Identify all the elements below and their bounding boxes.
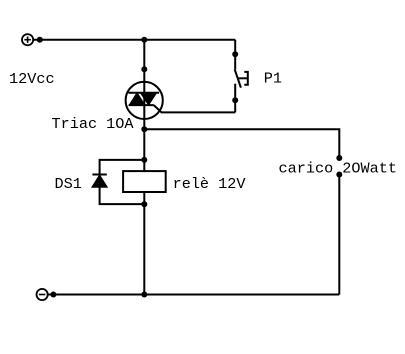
triac U1 bottom bar xyxy=(129,104,154,106)
wire gate run to triac xyxy=(154,105,235,112)
junction dot triac anode xyxy=(141,66,147,72)
wire top rail from + to P1 corner xyxy=(33,39,235,41)
wire P1 top drop xyxy=(234,40,236,70)
wire load bottom drop xyxy=(338,175,340,295)
plus supply terminal xyxy=(22,34,33,45)
junction dot P1 bottom xyxy=(232,97,238,103)
pushbutton P1 actuator stem xyxy=(238,77,248,79)
svg-text:Triac 1OA: Triac 1OA xyxy=(52,115,135,133)
svg-text:12Vcc: 12Vcc xyxy=(9,70,55,88)
minus supply terminal xyxy=(37,289,48,300)
junction dot top rail / triac xyxy=(141,37,147,43)
triac U1 left triangle xyxy=(129,93,145,105)
svg-text:P1: P1 xyxy=(264,70,282,88)
pushbutton P1 lever xyxy=(235,69,241,87)
triac U1 top bar xyxy=(128,92,159,94)
junction dot carico bottom xyxy=(336,172,342,178)
junction dot bottom rail / relay xyxy=(141,292,147,298)
pushbutton P1 actuator bracket xyxy=(244,72,248,85)
wire diode branch top xyxy=(100,160,145,175)
junction dot relay top xyxy=(141,157,147,163)
svg-text:carico 2OWatt: carico 2OWatt xyxy=(279,160,397,178)
junction dot at - terminal xyxy=(50,292,56,298)
wire P1 bottom to gate run xyxy=(234,84,236,113)
triac U1 right triangle xyxy=(140,93,156,105)
diode DS1 triangle xyxy=(92,175,107,187)
junction dot triac cathode xyxy=(141,126,147,132)
wire main vertical rail x=144 xyxy=(143,40,145,295)
junction dot at + terminal xyxy=(37,37,43,43)
svg-text:DS1: DS1 xyxy=(55,175,82,193)
relay K1 coil box xyxy=(123,171,166,192)
junction dot carico top xyxy=(336,155,342,161)
wire load feed from triac bottom xyxy=(144,129,339,155)
triac U1 body circle xyxy=(126,82,163,119)
wire diode branch bottom xyxy=(100,187,145,204)
wire bottom rail xyxy=(48,294,340,296)
svg-text:relè 12V: relè 12V xyxy=(173,175,247,193)
junction dot relay bottom xyxy=(141,201,147,207)
diode DS1 cathode bar xyxy=(92,174,106,176)
junction dot P1 top xyxy=(232,51,238,57)
